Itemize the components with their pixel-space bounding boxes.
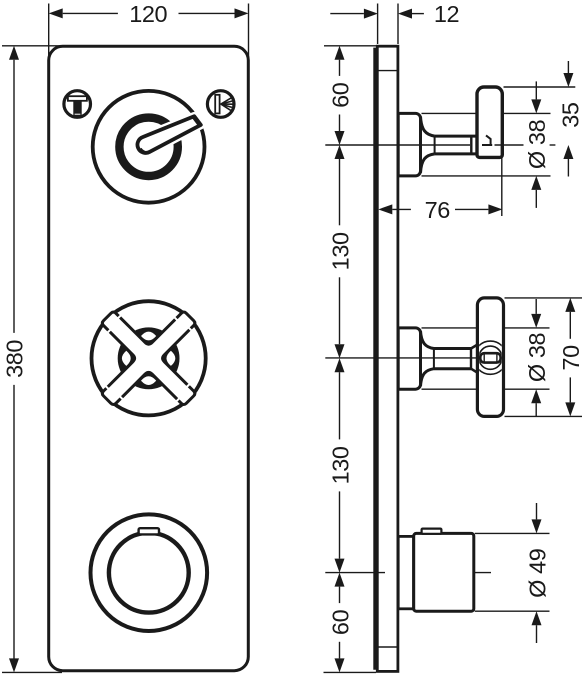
svg-text:60: 60 [327, 82, 353, 108]
svg-text:Ø 38: Ø 38 [524, 333, 550, 383]
extension line grip top [504, 86, 576, 88]
svg-text:Ø 49: Ø 49 [524, 549, 550, 598]
extension line 120 right [248, 4, 250, 59]
center line middle handle [325, 357, 477, 359]
svg-text:380: 380 [1, 340, 27, 378]
svg-text:120: 120 [129, 1, 167, 27]
svg-text:70: 70 [558, 345, 584, 371]
svg-text:Ø 38: Ø 38 [524, 119, 550, 169]
extension line 120 left [48, 4, 50, 59]
control handle bottom: inner circle [109, 533, 189, 613]
side view middle handle: base escutcheon [398, 328, 420, 389]
control handle middle: inner rosette disc [118, 327, 180, 389]
svg-text:76: 76 [425, 197, 451, 223]
icon shower (right) [207, 91, 234, 118]
svg-text:60: 60 [327, 609, 353, 635]
dimension 12 [330, 1, 459, 27]
control handle middle: cross grip [102, 312, 195, 405]
side view bottom knob: cylinder [414, 533, 474, 611]
control handle top: lever [137, 116, 200, 153]
extension lines middle handle [422, 298, 583, 417]
extension lines bottom knob [475, 533, 550, 611]
svg-text:12: 12 [434, 1, 459, 27]
extension line top (plate top, y=45.8) [2, 45, 377, 47]
dimension D49 [524, 503, 550, 643]
dimension 380 [1, 46, 27, 673]
svg-text:35: 35 [558, 102, 584, 128]
extension line bottom (y=672.4) [2, 671, 376, 673]
dimension 76 [378, 158, 502, 223]
side view bottom knob: index tab [422, 529, 442, 534]
dimension 35 [558, 61, 584, 177]
control handle bottom: index tab [139, 528, 159, 534]
dimension D38 top handle [524, 81, 550, 207]
control handle top: inner ring [119, 118, 177, 176]
side view middle handle: shaft [434, 345, 478, 373]
icon bath spout (left) [64, 91, 91, 118]
side view: wall line [373, 48, 377, 670]
side view top handle: shaft [435, 136, 478, 154]
control handle middle: cross outer circle [92, 301, 206, 415]
svg-text:130: 130 [327, 446, 353, 484]
dimension D38 middle handle [524, 299, 550, 416]
center line bottom knob [325, 572, 491, 574]
dimension 120 [49, 1, 249, 27]
side view top handle: base escutcheon [398, 113, 420, 175]
side view top handle: neck flare [421, 117, 435, 173]
extension lines base top/bottom (top handle) [422, 113, 551, 175]
side view top handle: lever grip [477, 87, 502, 157]
control handle top: lever mixer outer circle [93, 91, 205, 203]
extension line 12 right [397, 4, 399, 45]
side view: plate section [377, 46, 398, 671]
dimension chain 60/130/130/60 [327, 46, 353, 673]
svg-text:130: 130 [327, 232, 353, 270]
extension line 12 left [377, 4, 379, 45]
side view bottom knob: base flange [398, 536, 413, 608]
side view middle handle: cross disc [474, 298, 507, 417]
side view middle handle: neck flare [421, 331, 434, 386]
center line top handle [325, 144, 555, 146]
control handle bottom: outer circle [91, 514, 208, 631]
dimension 70 [558, 298, 584, 417]
front view: wall plate [49, 46, 249, 670]
